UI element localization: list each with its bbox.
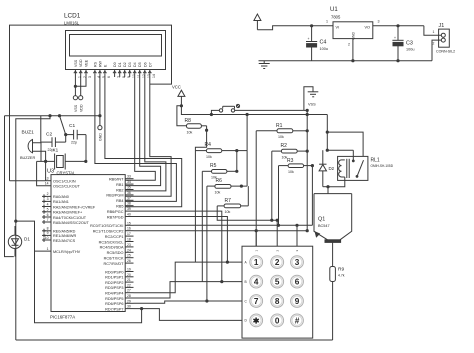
wire LCD D6 to PIC RB2	[125, 77, 166, 191]
wire button right to VSS	[235, 109, 309, 112]
svg-text:RC1/T1OSI/CCP2: RC1/T1OSI/CCP2	[93, 230, 124, 234]
svg-text:34: 34	[127, 180, 131, 184]
svg-text:D1: D1	[118, 62, 122, 67]
svg-text:1: 1	[47, 247, 49, 251]
wire LCD RW to GND terminal	[98, 77, 101, 126]
wire col3 vertical	[296, 225, 298, 246]
resistor R3	[279, 164, 315, 168]
svg-text:13: 13	[147, 74, 151, 78]
svg-text:30: 30	[127, 305, 131, 309]
wire diagonal C1 to GND net	[60, 116, 66, 135]
wire R6 left down to row C	[205, 186, 208, 303]
svg-text:D7: D7	[148, 62, 152, 67]
svg-text:VI: VI	[336, 25, 340, 29]
svg-text:BC547: BC547	[318, 224, 330, 228]
terminal VDD	[79, 96, 84, 112]
wire R7 left down to col2 rail	[217, 206, 279, 222]
label U3	[47, 169, 54, 175]
svg-text:6: 6	[107, 76, 111, 78]
wire OSC1 long	[10, 180, 46, 182]
wire row C to RD6	[134, 301, 243, 303]
label R9	[338, 267, 345, 278]
svg-text:RB3/PGM: RB3/PGM	[106, 194, 123, 198]
svg-text:GND: GND	[352, 31, 356, 39]
svg-text:RA0/AN0: RA0/AN0	[53, 195, 69, 199]
wire col1 vertical	[255, 231, 257, 247]
svg-text:7805: 7805	[331, 14, 341, 19]
svg-text:RA1/AN1: RA1/AN1	[53, 200, 69, 204]
svg-text:B: B	[245, 280, 247, 284]
svg-text:1: 1	[254, 258, 259, 267]
svg-text:5: 5	[102, 76, 106, 78]
svg-text:28: 28	[127, 294, 131, 298]
svg-text:R6: R6	[216, 178, 223, 184]
ground symbol power	[259, 61, 270, 69]
svg-text:RD4/PSP4: RD4/PSP4	[105, 292, 123, 296]
svg-text:C4: C4	[320, 40, 327, 46]
terminal VCC arrow	[172, 85, 185, 108]
wire row A to RD4	[134, 262, 243, 293]
svg-text:39: 39	[127, 207, 131, 211]
svg-text:D1: D1	[24, 237, 30, 242]
capacitor C2	[41, 137, 66, 161]
svg-text:C2: C2	[46, 132, 52, 138]
label C2	[46, 132, 54, 152]
svg-text:2: 2	[275, 258, 280, 267]
svg-text:7: 7	[254, 297, 259, 306]
svg-text:RD7/PSP7: RD7/PSP7	[105, 307, 123, 311]
wire top-left loop	[10, 25, 172, 181]
svg-text:18: 18	[127, 238, 131, 242]
label RL1	[371, 158, 394, 169]
label R8	[185, 118, 193, 135]
svg-text:D5: D5	[138, 62, 142, 67]
wire R2 left down to col2 rail	[271, 151, 273, 220]
wire LCD VDD to terminal	[80, 77, 82, 96]
svg-text:8: 8	[275, 297, 280, 306]
svg-text:R5: R5	[210, 163, 217, 169]
wire button left	[211, 110, 219, 114]
svg-text:3: 3	[47, 197, 49, 201]
svg-text:23: 23	[127, 243, 131, 247]
resistor R5	[202, 151, 238, 174]
wire J1 pin2	[432, 40, 441, 61]
wire MCLR loop to RD7	[35, 251, 144, 323]
wire OSC2	[37, 161, 51, 185]
svg-text:17: 17	[127, 232, 131, 236]
svg-text:RC2/CCP1: RC2/CCP1	[105, 235, 124, 239]
led D1	[8, 226, 21, 257]
svg-text:6: 6	[295, 278, 300, 287]
svg-text:R3: R3	[287, 158, 294, 164]
svg-text:37: 37	[127, 196, 131, 200]
wire bottom rail	[16, 339, 333, 341]
svg-text:22: 22	[127, 283, 131, 287]
label C1	[69, 123, 77, 145]
PIC right pin rows	[90, 175, 133, 312]
svg-text:D2: D2	[123, 62, 127, 67]
svg-text:D0: D0	[113, 62, 117, 67]
terminal power input arrow	[254, 14, 261, 30]
svg-text:U3: U3	[47, 169, 54, 175]
wire relay switch to rail	[327, 132, 363, 156]
wire R3 right down	[311, 166, 313, 226]
svg-text:RB7/PGD: RB7/PGD	[107, 215, 124, 219]
svg-text:RD6/PSP6: RD6/PSP6	[105, 302, 123, 306]
wire R1 left down to col1	[255, 131, 258, 246]
ground rail	[259, 60, 433, 62]
svg-text:R7: R7	[225, 198, 232, 204]
label J1	[436, 23, 455, 54]
svg-text:R2: R2	[281, 143, 288, 149]
svg-text:10k: 10k	[187, 131, 193, 135]
svg-text:VSS: VSS	[74, 104, 78, 112]
svg-text:22p: 22p	[48, 148, 54, 152]
wire relay feed	[326, 115, 354, 152]
svg-text:RB0/INT: RB0/INT	[109, 178, 124, 182]
wire VSS vertical	[306, 110, 309, 232]
resistor R1	[256, 129, 309, 133]
capacitor C1	[64, 130, 86, 162]
svg-text:26: 26	[127, 259, 131, 263]
svg-text:U1: U1	[330, 7, 338, 13]
wire R4 left down to row A	[194, 151, 196, 263]
svg-text:9: 9	[127, 76, 131, 78]
svg-text:15: 15	[127, 221, 131, 225]
connector J1	[439, 29, 450, 47]
svg-text:20: 20	[127, 273, 131, 277]
svg-text:RD3/PSP3: RD3/PSP3	[105, 286, 123, 290]
wire input to U1 VI	[257, 20, 333, 30]
svg-text:4: 4	[254, 278, 259, 287]
svg-text:RC4/SDI/SDA: RC4/SDI/SDA	[100, 246, 124, 250]
svg-text:9: 9	[47, 231, 49, 235]
svg-text:RD5/PSP5: RD5/PSP5	[105, 297, 123, 301]
buzzer BUZ1	[28, 116, 46, 162]
wire row D to RD7	[142, 309, 242, 321]
label PIC16F877A	[50, 315, 75, 320]
svg-text:3: 3	[378, 20, 380, 24]
svg-text:2: 2	[47, 192, 49, 196]
wire U1 VO rail	[373, 20, 424, 28]
wire crystal to OSC1	[46, 161, 51, 180]
svg-text:25: 25	[127, 254, 131, 258]
resistor R2	[272, 149, 309, 153]
capacitor C4	[306, 26, 317, 61]
svg-text:+: +	[308, 37, 310, 41]
wire RC1 to col1	[134, 230, 308, 232]
svg-text:1: 1	[433, 30, 435, 34]
svg-text:✱: ✱	[253, 317, 260, 326]
wire VCC to R8	[177, 106, 187, 126]
svg-text:RC7/RX/DT: RC7/RX/DT	[103, 262, 124, 266]
wire U1 GND pin	[348, 39, 355, 63]
svg-text:6: 6	[47, 213, 49, 217]
svg-text:BUZZER: BUZZER	[20, 156, 35, 160]
svg-text:2: 2	[348, 43, 350, 47]
resistor R7	[217, 186, 248, 208]
svg-text:10: 10	[132, 74, 136, 78]
relay RL1	[338, 150, 368, 180]
svg-text:14: 14	[45, 182, 49, 186]
svg-text:RB5: RB5	[116, 205, 123, 209]
svg-text:VCC: VCC	[172, 85, 181, 90]
svg-text:4.7k: 4.7k	[338, 274, 345, 278]
svg-text:5: 5	[275, 278, 280, 287]
svg-text:RD2/PSP2: RD2/PSP2	[105, 281, 123, 285]
svg-text:Q1: Q1	[318, 217, 325, 223]
svg-text:MCLR/Vpp/THV: MCLR/Vpp/THV	[53, 250, 81, 254]
capacitor C3	[392, 26, 403, 63]
svg-text:D4: D4	[133, 62, 137, 67]
push button	[219, 104, 239, 112]
svg-text:9: 9	[295, 297, 300, 306]
svg-text:7: 7	[117, 76, 121, 78]
terminal GND	[98, 126, 103, 142]
svg-text:RE1/AN6/WR: RE1/AN6/WR	[53, 234, 76, 238]
svg-text:24: 24	[127, 248, 131, 252]
label LCD1	[64, 13, 81, 26]
label R6	[215, 178, 223, 194]
svg-text:0: 0	[275, 317, 280, 326]
svg-text:R8: R8	[185, 118, 192, 124]
svg-text:VO: VO	[365, 25, 371, 29]
crystal X1	[37, 154, 88, 170]
resistor R4	[195, 149, 238, 153]
wire R5 left down to row B	[201, 171, 203, 281]
svg-text:36: 36	[127, 191, 131, 195]
svg-text:GND: GND	[99, 133, 103, 141]
wire VCC long rail	[181, 106, 327, 116]
label D1	[24, 237, 30, 242]
svg-text:10k: 10k	[206, 155, 212, 159]
svg-text:19: 19	[127, 268, 131, 272]
svg-text:OMIH-SH-105D: OMIH-SH-105D	[371, 164, 394, 168]
svg-text:2: 2	[433, 42, 435, 46]
svg-text:LCD1: LCD1	[64, 13, 81, 20]
svg-text:3: 3	[295, 258, 300, 267]
svg-text:1: 1	[326, 20, 328, 24]
svg-text:10k: 10k	[288, 170, 294, 174]
svg-text:RD0/PSP0: RD0/PSP0	[105, 270, 123, 274]
microcontroller U3 PIC16F877A box	[51, 175, 125, 312]
svg-text:27: 27	[127, 289, 131, 293]
svg-text:OSC2/CLKOUT: OSC2/CLKOUT	[53, 185, 80, 189]
svg-text:35: 35	[127, 186, 131, 190]
label BUZ1	[20, 130, 35, 160]
svg-text:C3: C3	[406, 40, 413, 46]
svg-text:11: 11	[137, 74, 141, 78]
wire J1 pin1	[424, 26, 441, 35]
regulator U1 7805	[333, 22, 373, 40]
svg-text:D6: D6	[143, 62, 147, 67]
PIC left pin rows	[42, 177, 96, 254]
svg-text:38: 38	[127, 202, 131, 206]
svg-text:10k: 10k	[215, 190, 221, 194]
svg-text:40: 40	[127, 213, 131, 217]
wire LCD D4 to PIC RB0	[125, 77, 155, 180]
svg-text:RB4: RB4	[116, 199, 123, 203]
svg-text:RA3/AN3/VREF+: RA3/AN3/VREF+	[53, 211, 83, 215]
wire LCD D7 to PIC RB3	[125, 77, 171, 196]
svg-text:R1: R1	[276, 123, 283, 129]
wire R3 left down to col3 rail	[277, 166, 280, 227]
wire ground net horizontal	[5, 114, 100, 117]
label R5	[210, 163, 217, 179]
svg-text:33: 33	[127, 175, 131, 179]
resistor R9	[330, 267, 336, 341]
svg-text:8: 8	[122, 76, 126, 78]
label Q1	[318, 217, 330, 229]
wire RC0 to col3	[134, 224, 313, 227]
label R4	[205, 142, 212, 159]
svg-text:100u: 100u	[320, 47, 328, 51]
svg-text:RB1: RB1	[116, 183, 123, 187]
svg-text:10k: 10k	[225, 210, 231, 214]
svg-text:VEE: VEE	[85, 59, 89, 67]
wire relay coil bottom	[326, 180, 344, 188]
svg-text:29: 29	[127, 299, 131, 303]
wire gnd jog to left rail	[14, 116, 50, 340]
label D2	[329, 166, 335, 171]
svg-text:RA2/AN2/VREF-/CVREF: RA2/AN2/VREF-/CVREF	[53, 205, 96, 209]
resistor R6	[207, 151, 247, 189]
label R3	[287, 158, 294, 174]
svg-text:C1: C1	[69, 123, 75, 129]
svg-text:RC0/T1OSO/T1CKI: RC0/T1OSO/T1CKI	[90, 224, 123, 228]
svg-text:D3: D3	[128, 62, 132, 67]
svg-text:VDD: VDD	[79, 59, 83, 67]
label R7	[225, 198, 232, 214]
svg-text:5: 5	[47, 208, 49, 212]
svg-text:PIC16F877A: PIC16F877A	[50, 315, 75, 320]
svg-text:R9: R9	[338, 267, 344, 273]
svg-text:RC5/SDO: RC5/SDO	[107, 251, 124, 255]
label U1	[330, 7, 341, 19]
svg-text:VDD: VDD	[79, 104, 83, 112]
svg-text:3: 3	[88, 76, 92, 78]
svg-text:21: 21	[127, 278, 131, 282]
LCD LCD1 outline	[66, 31, 166, 70]
svg-text:BUZ1: BUZ1	[22, 130, 35, 136]
wire gnd left to LED cathode	[5, 116, 14, 257]
keypad	[242, 246, 313, 338]
svg-text:10k: 10k	[278, 135, 284, 139]
svg-text:J1: J1	[439, 23, 445, 29]
svg-text:D2: D2	[329, 166, 335, 171]
svg-text:8: 8	[47, 227, 49, 231]
transistor Q1	[314, 194, 352, 267]
wire LCD D5 to PIC RB1	[125, 77, 160, 186]
svg-text:RE2/AN7/CS: RE2/AN7/CS	[53, 239, 76, 243]
LCD pin stubs and pin names	[74, 59, 156, 78]
wire LCD RS to PIC RB4	[95, 77, 176, 201]
wire LCD VEE to VSS	[75, 77, 86, 86]
svg-text:RA4/T0CKI/C1OUT: RA4/T0CKI/C1OUT	[53, 216, 87, 220]
svg-text:16: 16	[127, 227, 131, 231]
wire R4 right up to VCC	[237, 115, 247, 151]
label X1 CRYSTAL	[53, 148, 77, 176]
svg-text:7: 7	[47, 218, 49, 222]
svg-text:R4: R4	[205, 142, 212, 148]
terminal VSS	[73, 96, 78, 112]
label R1	[276, 123, 284, 139]
svg-text:RC6/TX/CK: RC6/TX/CK	[104, 257, 124, 261]
diode D2	[319, 150, 326, 187]
svg-text:4: 4	[97, 76, 101, 78]
label R2	[281, 143, 288, 159]
svg-text:RB6/PGC: RB6/PGC	[107, 210, 124, 214]
svg-text:CONN-SIL2: CONN-SIL2	[436, 50, 455, 54]
wire RB7 to row A	[134, 217, 229, 264]
wire row B to RD5	[134, 282, 243, 298]
svg-text:OSC1/CLKIN: OSC1/CLKIN	[53, 180, 76, 184]
svg-text:100u: 100u	[406, 48, 414, 52]
label C4	[320, 40, 328, 51]
svg-text:RE0/AN5/RD: RE0/AN5/RD	[53, 230, 76, 234]
svg-text:RA5/AN4/SS/C2OUT: RA5/AN4/SS/C2OUT	[53, 221, 90, 225]
svg-text:CRYSTAL: CRYSTAL	[57, 171, 77, 176]
svg-text:RS: RS	[93, 61, 97, 67]
svg-text:+: +	[394, 36, 396, 40]
svg-text:RB2: RB2	[116, 188, 123, 192]
wire LCD E to PIC RB5	[105, 77, 182, 207]
svg-text:#: #	[295, 317, 300, 326]
svg-text:RW: RW	[98, 60, 102, 67]
label C3	[406, 40, 414, 51]
wire RB0 stub junction	[133, 179, 135, 181]
resistor R8	[187, 124, 209, 151]
wire RB6 to row B	[134, 211, 224, 283]
wire col2 vertical	[276, 220, 278, 246]
wire LCD VSS to terminal	[74, 77, 77, 96]
wire MCLR branch	[16, 221, 51, 251]
svg-text:RL1: RL1	[371, 158, 380, 164]
wire D2 bottom to Q1 collector	[323, 187, 328, 194]
svg-text:22p: 22p	[71, 141, 77, 145]
svg-text:RD1/PSP1: RD1/PSP1	[105, 276, 123, 280]
svg-text:RC3/SCK/SCL: RC3/SCK/SCL	[99, 240, 124, 244]
svg-text:4: 4	[47, 202, 49, 206]
svg-text:VSS: VSS	[308, 103, 316, 107]
svg-text:10: 10	[45, 236, 49, 240]
svg-text:VSS: VSS	[74, 59, 78, 67]
svg-text:14: 14	[152, 74, 156, 78]
ground symbol VSS	[304, 87, 318, 111]
